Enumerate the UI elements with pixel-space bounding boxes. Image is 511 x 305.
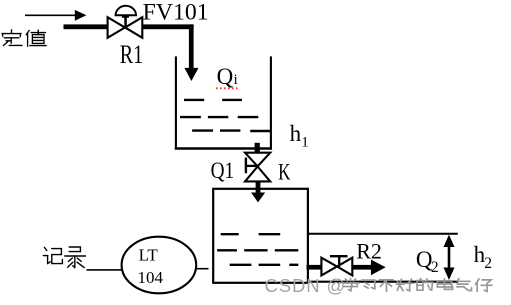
svg-text:K: K xyxy=(278,159,291,184)
svg-text:2: 2 xyxy=(431,259,439,276)
svg-text:R1: R1 xyxy=(120,40,143,69)
svg-text:CSDN @: CSDN @ xyxy=(265,275,347,296)
svg-text:LT: LT xyxy=(139,246,159,265)
svg-text:Q: Q xyxy=(217,64,234,89)
svg-text:i: i xyxy=(234,72,238,88)
svg-text:2: 2 xyxy=(484,255,492,272)
svg-text:h: h xyxy=(290,121,302,146)
svg-text:Q1: Q1 xyxy=(211,158,235,183)
svg-text:1: 1 xyxy=(301,135,309,151)
svg-text:R2: R2 xyxy=(356,239,382,264)
svg-text:104: 104 xyxy=(138,268,164,287)
svg-text:FV101: FV101 xyxy=(143,0,209,24)
